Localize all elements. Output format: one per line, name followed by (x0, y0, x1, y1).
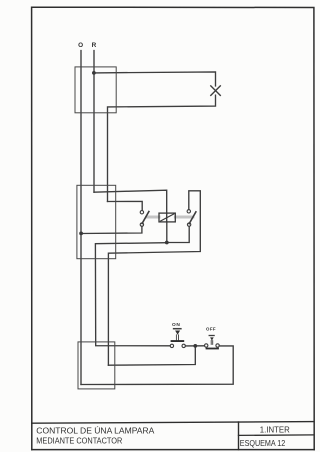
contactor mechanical linkage left (gray) (147, 216, 159, 219)
pushbutton OFF (NC) (205, 327, 220, 350)
svg-text:CONTROL DE ÚNA LAMPARA: CONTROL DE ÚNA LAMPARA (36, 425, 154, 435)
node dot: O tap junction (79, 232, 83, 236)
svg-text:ON: ON (172, 322, 180, 328)
svg-text:R: R (92, 42, 97, 49)
wire lamp return to main contact top (108, 201, 143, 210)
wire aux contact top loop to hold line (108, 191, 200, 365)
node dot: ON/OFF mid junction (193, 344, 197, 348)
svg-text:O: O (78, 42, 83, 49)
pushbutton ON (NO) (170, 322, 185, 348)
svg-text:OFF: OFF (206, 327, 216, 332)
wire O vertical drop to bottom rail (80, 51, 82, 385)
wire R vertical drop (93, 51, 95, 193)
title block right cell divider (239, 434, 314, 437)
junction box bottom enclosure (78, 342, 115, 389)
junction box top enclosure (75, 67, 116, 113)
wire ON to node to OFF (185, 345, 204, 347)
node dot: R tap junction (92, 71, 96, 75)
contactor coil KM (159, 213, 175, 222)
svg-text:MEDIANTE CONTACTOR: MEDIANTE CONTACTOR (36, 436, 122, 446)
wire junction left to ON button branch (95, 243, 170, 346)
main contact KM1 (left, NO) (140, 211, 149, 227)
wire lamp feed: R node to lamp (94, 72, 216, 86)
wire junction to aux contact bottom (167, 226, 189, 242)
wire coil bottom to junction node (166, 222, 168, 243)
svg-text:1.INTER: 1.INTER (260, 425, 290, 434)
wire main contact bottom to O junction (81, 226, 142, 233)
contactor mechanical linkage right (gray) (175, 216, 193, 219)
wire hold line to node between ON and OFF (108, 346, 195, 365)
wire R to coil top (passes through coil) (94, 190, 167, 222)
junction box middle enclosure (77, 185, 116, 258)
title block divider vertical (238, 422, 240, 450)
bottom border line (32, 449, 314, 451)
wire bottom rail (O) to right riser (81, 346, 233, 385)
lamp E1 (X symbol) (211, 86, 221, 96)
node dot: coil bottom junction (165, 241, 169, 245)
wire lamp bottom return (108, 95, 216, 201)
title block top line (32, 422, 314, 424)
svg-text:ESQUEMA 12: ESQUEMA 12 (240, 438, 286, 448)
aux contact KM2 (right, NO hold) (187, 210, 196, 227)
